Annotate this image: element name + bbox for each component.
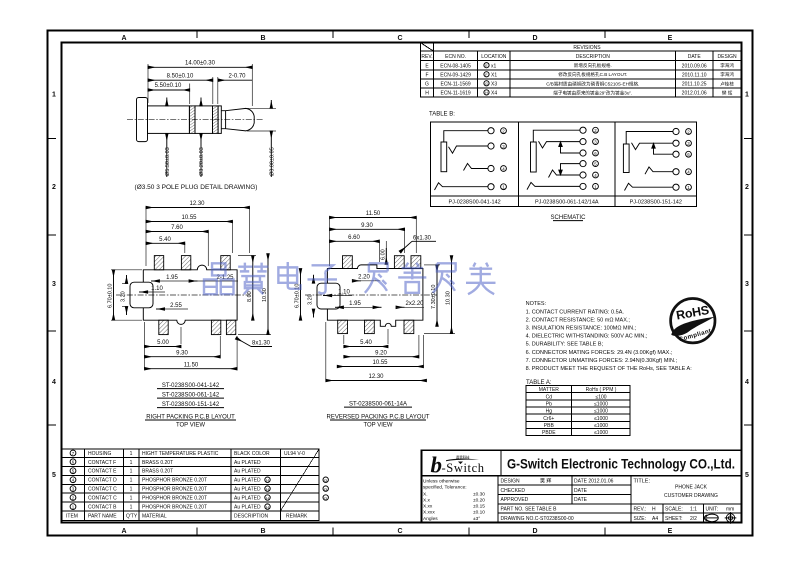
svg-text:F: F — [425, 72, 428, 78]
svg-text:1: 1 — [745, 92, 749, 99]
tap to pin6 with arrow — [561, 143, 581, 153]
pcbL left jack connector — [130, 282, 153, 308]
svg-text:1.95: 1.95 — [166, 275, 178, 281]
watermark char 善 — [398, 263, 426, 293]
svg-text:ECN-08-1405: ECN-08-1405 — [440, 63, 471, 69]
tip contact wire to pin3 — [539, 141, 581, 148]
svg-text:ST-0238S00-061-142: ST-0238S00-061-142 — [162, 393, 220, 399]
wire to pin2 — [533, 130, 580, 142]
svg-text:CUSTOMER DRAWING: CUSTOMER DRAWING — [664, 493, 718, 499]
ring contact wire to pin4 — [549, 170, 581, 178]
pcbR dim 11.50 — [330, 211, 417, 218]
svg-text:X.x: X.x — [423, 498, 431, 504]
svg-text:3: 3 — [745, 281, 749, 288]
pcbR dim 6.00 — [381, 248, 387, 264]
svg-text:1: 1 — [130, 460, 133, 466]
schematic 3 : PJ-0238S00-151-142 — [623, 128, 679, 190]
plug hatched ring 1 — [189, 106, 195, 133]
pcbL bottom dim extension lines — [145, 322, 238, 369]
svg-text:PHONE JACK: PHONE JACK — [675, 485, 708, 491]
svg-text:7.60: 7.60 — [171, 225, 183, 231]
svg-text:PHOSPHOR BRONZE 0.20T: PHOSPHOR BRONZE 0.20T — [142, 505, 207, 511]
pcbR top pad 2 — [394, 256, 404, 269]
svg-text:2.20: 2.20 — [358, 275, 370, 281]
svg-text:BLACK COLOR: BLACK COLOR — [234, 451, 270, 457]
pcbR left dim 3.20 — [308, 275, 314, 318]
svg-text:MATTER: MATTER — [539, 387, 560, 393]
svg-text:3. INSULATION RESISTANCE: 1: 3. INSULATION RESISTANCE: 100MΩ MIN.; — [526, 326, 637, 332]
svg-text:2011.10.25: 2011.10.25 — [682, 81, 707, 87]
svg-text:CONTACT D: CONTACT D — [88, 478, 117, 484]
svg-text:CONTACT B: CONTACT B — [88, 505, 117, 511]
svg-text:X.: X. — [423, 492, 428, 498]
logo b-Switch — [431, 453, 485, 478]
svg-text:1:1: 1:1 — [690, 507, 697, 513]
sleeve contact S2 — [531, 142, 537, 172]
dim 2-0.70 — [218, 73, 252, 104]
pcbR dim 6.60 — [330, 235, 380, 241]
svg-text:4: 4 — [745, 379, 749, 386]
svg-text:PART NAME: PART NAME — [88, 514, 117, 520]
plug ring collar — [218, 106, 221, 133]
svg-text:PBDE: PBDE — [542, 430, 556, 436]
tap to pin6 with arrow — [654, 144, 674, 154]
pcbR bottom pad 3 — [404, 320, 414, 333]
svg-text:TABLE B:: TABLE B: — [429, 112, 455, 118]
plug hatched ring 2 — [213, 106, 219, 133]
svg-text:ECN-11-1619: ECN-11-1619 — [440, 90, 470, 96]
svg-text:D: D — [532, 528, 537, 535]
svg-text:HIGHT TEMPERATURE PLASTIC: HIGHT TEMPERATURE PLASTIC — [142, 451, 219, 457]
svg-text:樊 辉: 樊 辉 — [722, 89, 733, 96]
svg-text:6. CONNECTOR MATING FORCES:: 6. CONNECTOR MATING FORCES: 29.4N (3.00K… — [526, 350, 673, 356]
svg-text:11.50: 11.50 — [184, 362, 199, 368]
pcbL dim 12.30 — [146, 201, 250, 208]
svg-text:2. CONTACT RESISTANCE: 50: 2. CONTACT RESISTANCE: 50 mΩ MAX.; — [526, 317, 631, 323]
svg-text:DESIGN: DESIGN — [718, 54, 738, 60]
svg-text:1: 1 — [130, 451, 133, 457]
plug middle section — [195, 106, 213, 133]
svg-text:≤1000: ≤1000 — [594, 409, 608, 415]
pcbL dim 11.50 — [145, 362, 238, 368]
svg-text:ECN-09-1429: ECN-09-1429 — [440, 72, 471, 78]
svg-text:±0.20: ±0.20 — [473, 498, 485, 504]
title block grid — [422, 450, 742, 522]
title block outline — [422, 450, 742, 522]
svg-text:5: 5 — [745, 472, 749, 479]
svg-text:8.00: 8.00 — [247, 291, 253, 302]
wire to pin2 — [444, 131, 488, 142]
projection symbols — [704, 512, 736, 524]
svg-text:1: 1 — [130, 478, 133, 484]
svg-text:A4: A4 — [652, 516, 658, 522]
svg-text:PJ-0238S00-061-142/14A: PJ-0238S00-061-142/14A — [535, 200, 599, 206]
svg-text:3.20: 3.20 — [121, 291, 127, 302]
svg-text:mm: mm — [726, 507, 734, 513]
svg-text:CONTACT F: CONTACT F — [88, 460, 116, 466]
watermark char 电 — [278, 262, 300, 289]
svg-text:DATE 2012.01.06: DATE 2012.01.06 — [574, 479, 614, 485]
plug flange — [137, 98, 148, 142]
watermark char 美 — [466, 263, 495, 294]
dim 8.50±0.10 — [148, 73, 213, 104]
svg-text:Unless otherwise: Unless otherwise — [423, 479, 460, 485]
svg-text:2: 2 — [745, 184, 749, 191]
svg-text:5.40: 5.40 — [360, 340, 372, 346]
rohs stamp ring — [671, 299, 715, 343]
svg-text:BRASS 0.20T: BRASS 0.20T — [142, 460, 173, 466]
circled G revision marks — [323, 477, 328, 500]
schematic 2 : PJ-0238S00-061-142/14A — [527, 127, 586, 190]
svg-text:10.55: 10.55 — [181, 215, 197, 221]
pcbR right dim 10.30 — [424, 256, 455, 334]
svg-text:≤1000: ≤1000 — [594, 423, 608, 429]
dim Ø5.50±0.03 — [165, 98, 171, 178]
svg-text:4: 4 — [52, 379, 56, 386]
svg-text:9.30: 9.30 — [361, 223, 373, 229]
svg-text:C: C — [397, 528, 402, 535]
svg-text:Hg: Hg — [546, 409, 553, 415]
shunt contact wire to pin1 — [527, 182, 580, 189]
pcbR dim 6x1.30 — [400, 235, 436, 252]
svg-text:UL94 V-0: UL94 V-0 — [284, 451, 305, 457]
svg-text:REV.:: REV.: — [634, 507, 647, 513]
pcbR dim 9.30 — [330, 223, 405, 229]
svg-text:X1: X1 — [491, 72, 497, 78]
svg-text:(Ø3.50 3 POLE PLUG DETAIL: (Ø3.50 3 POLE PLUG DETAIL DRAWING) — [135, 184, 258, 191]
svg-text:Pb: Pb — [546, 402, 552, 408]
pcbL dim 2x1.25 — [198, 275, 239, 281]
pcbL part number labels — [157, 383, 224, 408]
svg-text:SCHEMATIC: SCHEMATIC — [551, 215, 587, 221]
svg-text:1.10: 1.10 — [338, 289, 350, 295]
svg-text:TITLE:: TITLE: — [634, 479, 651, 485]
pcbR bottom pad 1 — [338, 320, 348, 333]
drawing sheet outer border frame — [48, 31, 753, 536]
svg-text:DATE: DATE — [688, 54, 702, 60]
svg-text:≤100: ≤100 — [595, 394, 606, 400]
shunt contact wire to pin1 — [625, 183, 674, 190]
svg-text:2-0.70: 2-0.70 — [228, 73, 246, 79]
svg-text:DATE: DATE — [574, 497, 588, 503]
pcbL body outline — [143, 265, 237, 324]
pcbL caption — [145, 415, 236, 429]
svg-text:≤1000: ≤1000 — [594, 402, 608, 408]
svg-text:D: D — [532, 35, 537, 42]
svg-text:Au PLATED: Au PLATED — [234, 478, 261, 484]
svg-text:C/B端材质由磷铜改为磷青铜C5210S-EH规格.: C/B端材质由磷铜改为磷青铜C5210S-EH规格. — [546, 80, 639, 87]
svg-text:7. CONNECTOR UNMATING FORCE: 7. CONNECTOR UNMATING FORCES: 2.94N(0.30… — [526, 358, 678, 364]
plug neck and tip — [221, 108, 254, 130]
svg-text:李海鸿: 李海鸿 — [720, 71, 734, 78]
shunt contact wire to pin1 — [435, 183, 489, 190]
revisions chinese descriptions — [546, 62, 734, 96]
pcbR caption — [326, 415, 429, 429]
pin circles — [673, 128, 679, 134]
dim 14.00±0.30 — [148, 61, 252, 107]
pcbL centerline — [116, 294, 250, 296]
svg-text:E: E — [668, 35, 673, 42]
table A grid — [526, 386, 630, 436]
svg-text:1.10: 1.10 — [151, 286, 163, 292]
svg-text:PHOSPHOR BRONZE 0.20T: PHOSPHOR BRONZE 0.20T — [142, 487, 207, 493]
svg-text:8. PRODUCT MEET THE REQUES: 8. PRODUCT MEET THE REQUEST OF THE RoHs,… — [526, 366, 693, 372]
pcbR dim 2x2.20 — [396, 301, 424, 307]
svg-text:CONTACT C: CONTACT C — [88, 487, 117, 493]
svg-text:Cd: Cd — [546, 394, 553, 400]
svg-text:G-Switch Electronic Technology: G-Switch Electronic Technology CO.,Ltd. — [507, 457, 735, 473]
svg-text:2.55: 2.55 — [170, 303, 182, 309]
svg-text:Au PLATED: Au PLATED — [234, 496, 261, 502]
sleeve contact S1 — [441, 142, 447, 172]
svg-text:±0.10: ±0.10 — [473, 510, 485, 516]
pcbR top dim extension lines — [330, 217, 417, 266]
svg-text:2: 2 — [52, 184, 56, 191]
svg-text:G: G — [485, 82, 488, 86]
pcbR bottom dim extension lines — [326, 322, 424, 379]
svg-text:±3°: ±3° — [473, 516, 480, 522]
frame zone letters top — [121, 35, 672, 535]
pcbL top dim extension lines — [146, 207, 250, 266]
svg-text:10.55: 10.55 — [372, 360, 388, 366]
tip contact wire to pin3 — [632, 143, 674, 150]
middle cells text — [501, 478, 614, 523]
svg-text:Ø5.50±0.03: Ø5.50±0.03 — [165, 147, 171, 176]
pcbL dim 8x1.30 — [236, 338, 272, 347]
svg-text:卢桂枝: 卢桂枝 — [720, 80, 734, 87]
svg-text:B: B — [260, 35, 265, 42]
tip contact wire to pin3 — [449, 146, 489, 153]
pcbR dim 1.95 — [335, 301, 382, 307]
svg-text:9.20: 9.20 — [375, 350, 387, 356]
svg-text:G: G — [425, 81, 429, 87]
svg-text:6.70±0.10: 6.70±0.10 — [108, 284, 114, 308]
svg-text:CHECKED: CHECKED — [501, 488, 526, 494]
svg-text:李海鸿: 李海鸿 — [720, 62, 734, 69]
dim Ø3.00±0.05 — [247, 100, 276, 177]
pcbL top pad 2 — [181, 256, 190, 270]
svg-text:H: H — [425, 90, 429, 96]
svg-text:PHOSPHOR BRONZE 0.20T: PHOSPHOR BRONZE 0.20T — [142, 496, 207, 502]
svg-text:±0.30: ±0.30 — [473, 492, 485, 498]
watermark char 子 — [308, 265, 337, 293]
svg-text:1: 1 — [130, 469, 133, 475]
svg-text:Angles: Angles — [423, 516, 438, 522]
pcbL dim 1.95 — [151, 275, 198, 281]
svg-text:樊 辉: 樊 辉 — [540, 478, 551, 485]
svg-text:SHEET:: SHEET: — [665, 516, 683, 522]
svg-text:A: A — [121, 35, 126, 42]
pcbL left dim 6.70±0.10 — [108, 270, 143, 320]
circled H plating marks — [265, 477, 270, 509]
watermark char 尽 (2) — [433, 263, 456, 292]
pcbR right dim 7.30±0.10 — [424, 265, 440, 326]
pcbL left dim 3.20 — [121, 275, 129, 315]
parts item circled numbers — [70, 450, 76, 509]
schematic boxes grid — [431, 122, 697, 207]
svg-text:X4: X4 — [491, 90, 497, 96]
svg-text:ECN-11-1569: ECN-11-1569 — [440, 81, 470, 87]
svg-text:Au PLATED: Au PLATED — [234, 505, 261, 511]
svg-text:x1: x1 — [491, 63, 497, 69]
svg-text:10.30: 10.30 — [262, 288, 268, 302]
svg-text:H: H — [485, 91, 488, 95]
svg-text:H: H — [266, 504, 269, 509]
pcbL dim 2.55 — [156, 303, 188, 309]
wire to pin2 — [626, 132, 673, 145]
svg-text:H: H — [266, 486, 269, 491]
svg-text:PART NO. SEE TABLE B: PART NO. SEE TABLE B — [501, 507, 558, 513]
svg-text:G: G — [324, 486, 327, 491]
watermark char 晶 — [204, 263, 233, 294]
svg-text:8x1.30: 8x1.30 — [252, 341, 271, 347]
svg-text:PJ-0238S00-041-142: PJ-0238S00-041-142 — [448, 200, 500, 206]
svg-text:Au PLATED: Au PLATED — [234, 469, 261, 475]
svg-text:Au PLATED: Au PLATED — [234, 460, 261, 466]
svg-text:2x2.20: 2x2.20 — [405, 301, 424, 307]
svg-text:ST-0238S00-151-142: ST-0238S00-151-142 — [162, 402, 220, 408]
svg-text:SIZE:: SIZE: — [634, 516, 647, 522]
revisions table texts — [421, 45, 737, 60]
frame zone numbers left/right — [52, 92, 749, 480]
svg-text:DESIGN: DESIGN — [501, 479, 521, 485]
svg-text:UNIT:: UNIT: — [706, 507, 719, 513]
watermark char 赞 — [238, 263, 268, 294]
svg-text:Au PLATED: Au PLATED — [234, 487, 261, 493]
pin circles — [580, 127, 586, 133]
pin circles — [488, 128, 494, 134]
svg-text:CONTACT C: CONTACT C — [88, 496, 117, 502]
svg-text:DRAWING NO.C-ST0238S00-00: DRAWING NO.C-ST0238S00-00 — [501, 516, 574, 522]
svg-text:PHOSPHOR BRONZE 0.20T: PHOSPHOR BRONZE 0.20T — [142, 478, 207, 484]
svg-text:1.95: 1.95 — [349, 301, 361, 307]
svg-text:ST-0238S00-061-14A: ST-0238S00-061-14A — [349, 402, 407, 408]
table A texts — [539, 387, 617, 436]
svg-text:2/2: 2/2 — [690, 516, 697, 522]
svg-text:TABLE A:: TABLE A: — [526, 380, 552, 386]
schematic 1 : PJ-0238S00-041-142 — [435, 128, 495, 190]
svg-text:新增反向孔板规格.: 新增反向孔板规格. — [574, 62, 612, 69]
watermark char 尽 — [365, 263, 388, 292]
svg-text:-Switch: -Switch — [442, 461, 485, 475]
dim 5.50±0.10 — [148, 83, 190, 104]
svg-text:6.60: 6.60 — [348, 235, 360, 241]
svg-text:SCALE:: SCALE: — [665, 507, 683, 513]
svg-text:TOP VIEW: TOP VIEW — [176, 423, 205, 429]
svg-text:12.30: 12.30 — [368, 374, 384, 380]
svg-text:b: b — [431, 453, 443, 478]
svg-text:1: 1 — [130, 496, 133, 502]
svg-text:5.40: 5.40 — [159, 237, 171, 243]
rohs stamp swoosh — [671, 317, 715, 336]
schematic 3 pin numbers — [686, 129, 692, 191]
svg-text:5: 5 — [52, 472, 56, 479]
svg-text:G: G — [324, 478, 327, 483]
svg-text:11.50: 11.50 — [366, 211, 381, 217]
svg-text:1. CONTACT CURRENT RATING:: 1. CONTACT CURRENT RATING: 0.5A. — [526, 309, 625, 315]
svg-text:G: G — [324, 495, 327, 500]
svg-text:ITEM: ITEM — [66, 514, 78, 520]
pcbR left dim 6.70±0.10 — [295, 269, 301, 321]
svg-text:修改反向孔板规格孔C.B LAYOUT.: 修改反向孔板规格孔C.B LAYOUT. — [558, 71, 627, 78]
plug centerline — [127, 119, 263, 121]
svg-text:≤1000: ≤1000 — [594, 416, 608, 422]
svg-text:Ø3.20±0.03: Ø3.20±0.03 — [199, 147, 205, 176]
svg-text:RoHs ( PPM ): RoHs ( PPM ) — [586, 387, 617, 393]
svg-text:ST-0238S00-041-142: ST-0238S00-041-142 — [162, 383, 220, 389]
svg-text:APPROVED: APPROVED — [501, 497, 529, 503]
svg-text:H: H — [652, 507, 656, 513]
pcbL right dim 8.00 — [238, 256, 256, 321]
tolerance cell text — [423, 479, 485, 522]
pcbL dim 5.40 — [146, 237, 185, 243]
pcbL bottom pad 2 — [211, 320, 220, 334]
dim Ø3.20±0.03 — [199, 98, 205, 178]
svg-text:±0.15: ±0.15 — [473, 504, 485, 510]
ring contact wire to pin4 — [645, 167, 673, 174]
svg-text:ECN NO.: ECN NO. — [445, 54, 466, 60]
svg-text:5.50±0.10: 5.50±0.10 — [155, 83, 182, 89]
svg-text:Q'TY: Q'TY — [126, 514, 138, 520]
svg-text:2010.11.10: 2010.11.10 — [682, 72, 707, 78]
svg-text:REMARK: REMARK — [286, 514, 308, 520]
drawing sheet inner border frame — [62, 43, 742, 523]
svg-text:14.00±0.30: 14.00±0.30 — [185, 61, 216, 67]
pcbL dim 1.10 — [139, 286, 165, 292]
svg-text:2012.01.06: 2012.01.06 — [682, 90, 707, 96]
svg-text:2010.09.06: 2010.09.06 — [682, 63, 707, 69]
svg-text:DATE: DATE — [574, 488, 588, 494]
svg-text:PJ-0238S00-151-142: PJ-0238S00-151-142 — [630, 200, 682, 206]
pcbL dim 10.55 — [146, 215, 233, 222]
pcbR dim 1.10 — [323, 289, 352, 295]
svg-text:A: A — [121, 528, 126, 535]
title cell — [634, 479, 735, 523]
svg-text:5.00: 5.00 — [157, 340, 169, 346]
svg-text:DESCRIPTION: DESCRIPTION — [576, 54, 611, 60]
tap to pin5 with arrow — [561, 164, 581, 175]
svg-text:HOUSING: HOUSING — [88, 451, 111, 457]
schematic 2 pin numbers — [593, 127, 599, 189]
parts rows text — [66, 451, 308, 520]
pcbR bottom pad 2 — [365, 320, 375, 333]
pcbR part number label — [344, 402, 412, 408]
svg-text:Cr6+: Cr6+ — [543, 416, 554, 422]
svg-text:6x1.30: 6x1.30 — [413, 235, 432, 241]
svg-text:DESCRIPTION: DESCRIPTION — [234, 514, 269, 520]
parts table grid — [62, 449, 320, 521]
svg-text:BRASS 0.20T: BRASS 0.20T — [142, 469, 173, 475]
pcbR centerline — [305, 294, 437, 296]
pcbR dim 2.20 — [352, 275, 380, 281]
svg-text:Ø3.00±0.05: Ø3.00±0.05 — [270, 147, 276, 176]
svg-text:9.30: 9.30 — [176, 350, 188, 356]
svg-text:specified, Tolerance:: specified, Tolerance: — [423, 485, 467, 491]
svg-text:3: 3 — [52, 281, 56, 288]
svg-text:12.30: 12.30 — [189, 201, 205, 207]
svg-text:X.xxx: X.xxx — [423, 510, 435, 516]
svg-text:REVISIONS: REVISIONS — [573, 45, 601, 51]
pcbR left jack connector — [317, 283, 340, 309]
svg-text:X.xx: X.xx — [423, 504, 433, 510]
svg-text:C: C — [397, 35, 402, 42]
svg-text:≤1000: ≤1000 — [594, 430, 608, 436]
svg-text:PBB: PBB — [544, 423, 555, 429]
svg-text:E: E — [668, 528, 673, 535]
svg-text:8.50±0.10: 8.50±0.10 — [167, 73, 194, 79]
pcbL bottom pad 1 — [159, 320, 168, 334]
pcbL bottom pad 3 — [226, 320, 235, 334]
